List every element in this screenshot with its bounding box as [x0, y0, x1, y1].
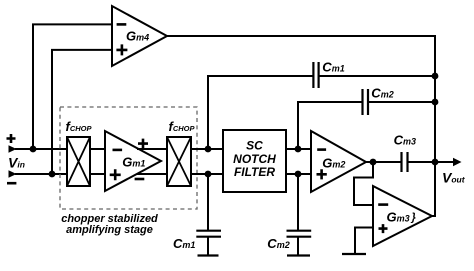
capacitor Cm1 (top feedback) [313, 62, 318, 88]
op-amp Gm2 [311, 131, 366, 192]
svg-text:Vout: Vout [442, 170, 466, 186]
wire Vin+ input row [15, 148, 67, 150]
junction dot Cm1-bus [432, 73, 439, 80]
wire Gm1 to chopper2 bottom [137, 173, 167, 175]
capacitor Cm3 [402, 152, 408, 172]
wire chopper2 to SC notch filter top [191, 148, 223, 150]
label Vin minus sign [7, 182, 16, 185]
wire feedback Gm2 output to Gm3 inverting input [354, 162, 373, 205]
node A junction dot [30, 146, 37, 153]
output terminal arrow Vout [453, 158, 462, 167]
input terminal arrow Vin+ [9, 145, 17, 153]
input terminal arrow Vin- [9, 170, 17, 178]
svg-text:Cm1: Cm1 [173, 236, 195, 251]
svg-text:SC: SC [246, 139, 263, 153]
node C junction dot [205, 146, 212, 153]
wire Gm2 output to Cm3 [366, 161, 401, 163]
wire node C up to Cm1 feedback [208, 76, 313, 149]
ground (Cm2) [287, 254, 310, 256]
wire SC filter to Gm2 bottom [286, 173, 311, 175]
op-amp Gm4 [112, 6, 167, 66]
wire chopper2 to SC notch filter bottom [191, 173, 223, 175]
svg-text:}: } [411, 212, 417, 224]
svg-text:fCHOP: fCHOP [66, 119, 93, 134]
wire output stub with arrow [435, 161, 454, 163]
wire Cm1 to right bus [319, 75, 435, 77]
wire Vin- input row [15, 173, 67, 175]
wire node E up to Cm2 feedback [298, 102, 362, 149]
junction dot Cm2-bus [432, 99, 439, 106]
wire Gm4 output to right bus and down to Gm3 output node [167, 36, 435, 217]
wire Gm3 output to bus [432, 215, 435, 217]
chopper modulator 1 [67, 137, 90, 186]
wire chopper1 to Gm1 bottom [90, 173, 105, 175]
chopper modulator 2 [167, 137, 191, 186]
node E junction dot [295, 146, 302, 153]
wire SC filter to Gm2 top [286, 148, 311, 150]
wire Cm3 to output node [408, 161, 435, 163]
node B junction dot [49, 171, 56, 178]
wire from node A up to Gm4 inverting input [33, 24, 112, 149]
wire node F down to Cm2 bottom [297, 174, 299, 230]
Gm1 output polarity plus [138, 139, 148, 149]
capacitor Cm2 (bottom) [287, 231, 312, 237]
svg-text:FILTER: FILTER [234, 165, 275, 179]
svg-text:fCHOP: fCHOP [169, 119, 196, 134]
node D junction dot [205, 171, 212, 178]
svg-text:amplifying stage: amplifying stage [66, 224, 153, 236]
wire chopper1 to Gm1 top [90, 148, 105, 150]
ground (Cm1) [198, 254, 219, 256]
SC notch filter block [223, 130, 286, 192]
wire from node B up to Gm4 non-inverting input [52, 50, 112, 174]
wire Cm2 bottom to ground [297, 237, 299, 255]
wire Gm3 non-inverting input to ground [355, 228, 373, 255]
wire Gm1 to chopper2 top [137, 148, 167, 150]
op-amp Gm1 [105, 131, 161, 191]
node G (Gm2 output) junction dot [370, 159, 377, 166]
dashed box chopper stabilized amplifying stage [60, 107, 197, 209]
node Vout junction dot [432, 159, 439, 166]
capacitor Cm2 (top feedback) [363, 89, 369, 115]
wire Cm2 to right bus [368, 101, 435, 103]
label Vin plus sign [7, 134, 16, 143]
op-amp Gm3 [373, 186, 432, 246]
svg-text:Cm2: Cm2 [267, 236, 289, 251]
svg-text:Cm2: Cm2 [371, 86, 393, 101]
wire node D down to Cm1 bottom [207, 174, 209, 230]
svg-text:Cm1: Cm1 [322, 60, 344, 75]
ground (Gm3 input) [342, 253, 366, 255]
wire Cm1 bottom to ground [207, 237, 209, 255]
capacitor Cm1 (bottom) [196, 231, 221, 237]
node F junction dot [295, 171, 302, 178]
Gm1 output polarity minus [135, 178, 145, 181]
svg-text:Vin: Vin [8, 155, 25, 171]
svg-text:Cm3: Cm3 [394, 132, 416, 147]
svg-text:NOTCH: NOTCH [233, 152, 276, 166]
